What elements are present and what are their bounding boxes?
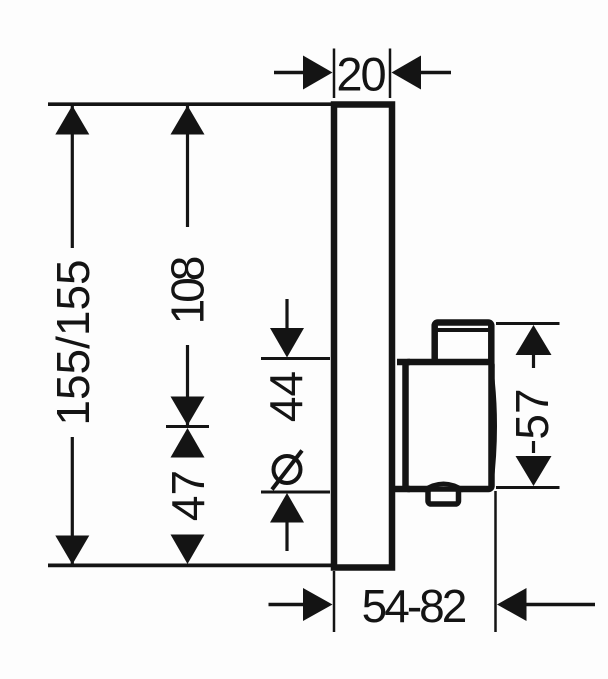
dim 20: right arrow	[392, 56, 422, 90]
dim 54-82: left tail	[269, 603, 306, 606]
dim 54-82: right arrow	[497, 588, 527, 621]
dim 20: left arrow	[303, 56, 333, 90]
dim 57: bottom arrow (points down)	[516, 456, 552, 486]
dim 155/155: top arrow	[55, 106, 89, 135]
body bottom-left edge extension	[395, 486, 410, 493]
stem inner line	[438, 328, 489, 332]
dim 57: bottom extension line	[496, 486, 560, 489]
dim 20: right extension line	[389, 49, 392, 99]
svg-text:47: 47	[162, 470, 214, 521]
dim 54-82: right tail	[526, 603, 595, 606]
dim 155/155: dimension line	[71, 106, 74, 564]
dim 44: top tick	[261, 357, 330, 360]
dim 108: bottom arrow	[171, 397, 205, 426]
body front curved face (thin arc)	[492, 368, 496, 486]
valve body	[406, 362, 492, 489]
svg-text:54-82: 54-82	[362, 580, 466, 632]
dim 44: diameter symbol slash	[272, 451, 302, 490]
dim 108: tick	[166, 425, 209, 428]
dim 155/155: label halo	[49, 248, 93, 437]
dim 108: dimension line	[186, 105, 189, 426]
wall plate (front escutcheon, side view)	[334, 105, 392, 568]
dim 57: top extension line	[496, 322, 560, 325]
bottom bump arc	[424, 484, 464, 491]
svg-text:20: 20	[336, 48, 385, 101]
svg-text:155/155: 155/155	[47, 259, 99, 425]
dim 54-82: left arrow	[303, 588, 333, 621]
dim 108: top arrow	[171, 106, 205, 135]
dim 44: top arrow (points down)	[270, 328, 304, 358]
dim 57: top arrow (points up)	[516, 325, 552, 355]
dim 20: left extension line	[333, 49, 336, 99]
dim 20: left tail	[274, 71, 305, 74]
dim 47: bottom arrow (points down)	[171, 535, 205, 565]
valve stem (top cartridge block)	[435, 323, 492, 371]
dim 44: bottom tick	[261, 491, 330, 494]
dim 44: diameter symbol circle	[274, 456, 301, 483]
svg-text:44: 44	[260, 371, 312, 422]
dim 44: bottom shaft	[285, 521, 288, 551]
bottom boundary line	[48, 564, 334, 568]
dim 155/155: bottom arrow	[55, 536, 89, 565]
dim 54-82: right extension line	[494, 491, 497, 632]
dim 54-82: left extension line	[333, 571, 336, 632]
svg-text:108: 108	[162, 257, 214, 324]
dim 20: right tail	[420, 71, 451, 74]
dim 44: bottom arrow (points up)	[270, 493, 304, 523]
dim 57: bottom stub	[532, 441, 535, 453]
bottom tab	[428, 489, 459, 504]
top boundary line	[48, 102, 334, 106]
dim 57: top stub	[532, 353, 535, 368]
dim 47: top arrow (points up)	[171, 428, 205, 458]
dim 44: top shaft	[285, 299, 288, 336]
svg-text:57: 57	[506, 388, 558, 439]
dim 108: label halo	[165, 227, 209, 345]
body top-left edge extension	[397, 359, 410, 366]
